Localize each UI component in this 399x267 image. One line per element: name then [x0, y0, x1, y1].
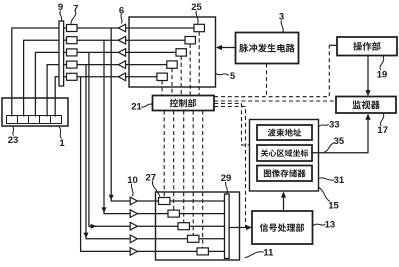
delay element 25 ch2: [185, 37, 195, 44]
operation unit box 19: [337, 37, 397, 56]
dashed bus control to monitor: [214, 100, 336, 102]
delay element 27 row3: [178, 223, 189, 230]
dashed bus control to signal processor: [214, 107, 245, 228]
amplifier 6 ch1: [118, 24, 125, 32]
svg-text:5: 5: [230, 71, 236, 82]
pulse generator box 3: [236, 33, 299, 64]
svg-text:25: 25: [191, 2, 202, 13]
memory unit box 15: [250, 120, 319, 192]
beam address text: [268, 129, 302, 137]
control unit text: [170, 99, 196, 108]
svg-text:23: 23: [8, 135, 19, 146]
wire amplifier10 to delay27 row4: [137, 238, 187, 240]
svg-text:15: 15: [328, 201, 339, 212]
dashed wire pulse generator to control bus: [266, 64, 268, 97]
wire delay27 to adder row5: [208, 250, 224, 252]
switch contact 7-1: [64, 27, 67, 29]
dashed control line to delay25 ch4: [171, 68, 173, 95]
wire signal processor to memory unit: [283, 196, 285, 211]
switch contact 7-5: [64, 76, 67, 78]
signal processor box 13: [252, 211, 313, 244]
wire receive feed ch4: [86, 65, 130, 239]
wire amplifier10 to delay27 row3: [137, 225, 178, 227]
wire pulse generator to box5: [222, 47, 236, 49]
adder bar 29: [225, 194, 230, 259]
dashed control line to delay25 ch2: [189, 44, 191, 96]
svg-text:17: 17: [377, 125, 388, 136]
wire contact to amplifier ch5: [77, 76, 119, 78]
receiver box 11: [156, 192, 240, 260]
transducer array 1: [2, 98, 68, 126]
svg-text:31: 31: [334, 175, 345, 186]
switch contact 7-3: [64, 51, 67, 53]
wire receive feed ch2: [104, 40, 130, 213]
monitor text: [352, 100, 379, 109]
wire receive feed ch5: [81, 77, 131, 252]
dashed control line to delay27 row2: [173, 111, 175, 210]
wire amplifier to delay ch3: [126, 51, 176, 53]
wire delay27 to adder row2: [179, 213, 224, 215]
delay element 25 ch3: [176, 49, 186, 56]
wire element 3 to switch: [35, 52, 59, 116]
svg-text:33: 33: [329, 120, 340, 131]
delay element 27 row1: [159, 198, 170, 205]
svg-text:13: 13: [325, 220, 336, 231]
wire roi to monitor: [312, 118, 369, 153]
operation unit text: [353, 42, 380, 51]
wire contact to amplifier ch1: [77, 27, 119, 29]
dashed control line to delay27 row1: [163, 111, 165, 198]
control unit box 21: [153, 96, 215, 111]
dashed control line to delay27 row5: [202, 111, 204, 248]
svg-text:35: 35: [334, 136, 345, 147]
wire adder to signal processor: [229, 227, 247, 229]
wire amplifier10 to delay27 row1: [137, 200, 158, 202]
amplifier 10 row3: [130, 222, 137, 230]
wire receive feed ch1: [111, 28, 130, 201]
svg-text:19: 19: [377, 69, 388, 80]
wire operation unit to monitor: [367, 56, 369, 92]
dashed control line to delay27 row4: [192, 111, 194, 236]
wire delay27 to adder row4: [199, 238, 225, 240]
svg-text:10: 10: [127, 175, 138, 186]
amplifier 6 ch4: [118, 61, 125, 69]
wire delay27 to adder row3: [189, 225, 224, 227]
wire amplifier to delay ch4: [126, 64, 167, 66]
pulse generator text: [239, 44, 295, 53]
delay element 27 row5: [197, 248, 208, 255]
amplifier 10 row2: [130, 210, 137, 218]
svg-text:11: 11: [263, 248, 274, 259]
delay element 27 row2: [168, 210, 179, 217]
signal processor text: [260, 223, 305, 232]
transmitter box 5: [129, 17, 216, 87]
wire contact to amplifier ch2: [77, 39, 119, 41]
wire amplifier to delay ch1: [126, 27, 194, 29]
dashed control line to delay25 ch5: [161, 81, 163, 96]
switch contact 7-4: [64, 64, 67, 66]
wire delay27 to adder row1: [170, 200, 225, 202]
transducer elements 23: [7, 116, 62, 124]
dashed control line to delay27 row3: [183, 111, 185, 223]
amplifier 10 row5: [130, 248, 137, 256]
amplifier 6 ch2: [118, 36, 125, 44]
image memory box 31: [257, 166, 312, 182]
monitor box 17: [336, 97, 396, 114]
image memory text: [264, 169, 306, 177]
amplifier 6 ch3: [118, 49, 125, 57]
delay element 27 row4: [188, 235, 199, 242]
beam address box 33: [257, 125, 312, 140]
wire element 2 to switch: [24, 40, 59, 116]
delay element 25 ch5: [157, 73, 167, 80]
wire element 4 to switch: [47, 65, 59, 117]
amplifier 10 row1: [130, 197, 137, 205]
switch contact 7-2: [64, 39, 67, 41]
wire element 1 to switch: [12, 28, 59, 117]
wire contact to amplifier ch3: [77, 51, 119, 53]
wire amplifier10 to delay27 row5: [137, 250, 197, 252]
svg-text:1: 1: [59, 138, 65, 149]
switch bar 9: [59, 21, 64, 86]
delay element 25 ch1: [194, 24, 204, 31]
delay element 25 ch4: [167, 61, 177, 68]
svg-text:27: 27: [146, 172, 157, 183]
amplifier 6 ch5: [118, 73, 125, 81]
roi coordinate text: [261, 149, 309, 157]
wire amplifier to delay ch5: [126, 76, 157, 78]
wire element 5 to switch: [55, 77, 59, 117]
amplifier 10 row4: [130, 235, 137, 243]
wire receive feed ch3: [89, 52, 130, 226]
roi coordinate box 35: [257, 145, 312, 161]
wire contact to amplifier ch4: [77, 64, 119, 66]
wire amplifier to delay ch2: [126, 39, 185, 41]
wire amplifier10 to delay27 row2: [137, 213, 168, 215]
dashed bus control to memory unit: [214, 104, 249, 146]
svg-text:21: 21: [131, 101, 142, 112]
dashed bus control to operation unit: [214, 45, 329, 96]
dashed control line to delay25 ch3: [180, 56, 182, 95]
dashed control line to delay25 ch1: [198, 32, 200, 96]
